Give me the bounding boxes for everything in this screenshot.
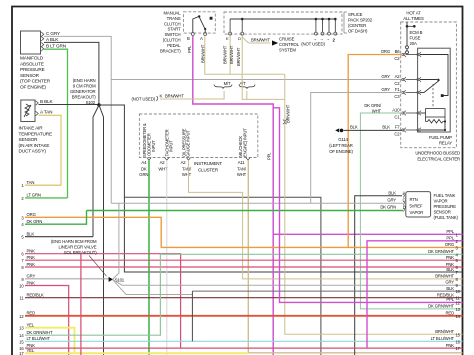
wire BRN/WHT branch to cruise control xyxy=(242,37,270,43)
wire PPL vertical joining rows 2 12 17 xyxy=(367,241,463,348)
relay actuator dashed link xyxy=(432,84,434,107)
svg-text:A2: A2 xyxy=(160,160,166,165)
svg-text:CRUISE: CRUISE xyxy=(279,37,295,42)
label BRN/WHT vertical pin E xyxy=(222,45,227,64)
svg-text:ALL TIMES: ALL TIMES xyxy=(403,16,424,21)
svg-text:START: START xyxy=(168,27,181,32)
svg-text:PPL: PPL xyxy=(446,229,454,234)
svg-text:C GRY: C GRY xyxy=(46,31,61,36)
svg-text:PEDAL: PEDAL xyxy=(167,43,181,48)
IAT sensor caption xyxy=(19,126,52,154)
cluster pin A4 xyxy=(141,158,151,166)
svg-text:BLK: BLK xyxy=(446,267,454,272)
svg-text:PNK: PNK xyxy=(27,262,36,267)
relay coil with resistor xyxy=(420,109,446,131)
svg-text:TAN: TAN xyxy=(27,180,35,185)
svg-text:BRN/WHT: BRN/WHT xyxy=(229,45,234,64)
pin B label LT GRN xyxy=(46,44,66,49)
left wire 15 LT BLU/WHT xyxy=(19,336,462,344)
svg-text:HOT AT: HOT AT xyxy=(406,11,421,16)
svg-text:C1: C1 xyxy=(394,115,400,120)
splice pack internal bus xyxy=(229,18,337,35)
label BRN/WHT vertical xyxy=(201,44,206,63)
speedometer odometer input label xyxy=(142,123,156,157)
svg-text:C2: C2 xyxy=(394,132,400,137)
svg-text:DK GRN/WHT: DK GRN/WHT xyxy=(428,249,454,254)
svg-text:DK GRN/WHT: DK GRN/WHT xyxy=(27,330,53,335)
sensor pin labels xyxy=(380,191,406,210)
svg-text:GAUGE INPUT: GAUGE INPUT xyxy=(186,130,191,157)
label WHT xyxy=(158,167,168,172)
ECM B fuse 20A xyxy=(406,22,423,55)
svg-text:A: A xyxy=(200,36,203,41)
svg-text:DUCT ASS'Y): DUCT ASS'Y) xyxy=(19,149,47,154)
label TAN/WHT mil xyxy=(237,167,247,177)
svg-text:A2: A2 xyxy=(181,160,187,165)
left wire 1 TAN xyxy=(21,180,61,188)
svg-text:SENSOR: SENSOR xyxy=(20,73,40,78)
svg-text:GRY: GRY xyxy=(445,280,454,285)
svg-text:ORG: ORG xyxy=(445,242,454,247)
svg-text:PNK: PNK xyxy=(446,255,455,260)
wire GRY from S101 up branch to sensor return line xyxy=(113,203,119,279)
svg-text:DK GRN/: DK GRN/ xyxy=(364,103,382,108)
svg-text:MANUAL: MANUAL xyxy=(163,11,181,16)
svg-text:DK GRN/WHT: DK GRN/WHT xyxy=(428,304,454,309)
svg-text:LT GRN: LT GRN xyxy=(27,193,41,198)
svg-text:TAN/: TAN/ xyxy=(182,167,192,172)
svg-text:PNK: PNK xyxy=(446,343,455,348)
wire BRN/WHT A/T brace stem xyxy=(246,91,248,99)
wire BLK S102 right branch to right row 7 xyxy=(99,105,463,272)
svg-text:PRESSURE: PRESSURE xyxy=(20,67,45,72)
svg-text:B LT GRN: B LT GRN xyxy=(46,44,66,49)
svg-text:D: D xyxy=(238,36,241,41)
svg-text:20A: 20A xyxy=(410,41,417,46)
splice pack SP202 dashed box xyxy=(224,12,342,34)
svg-text:WHT: WHT xyxy=(182,172,192,177)
wire BRN/WHT from splice pin D through A/T stem to right row 15 xyxy=(242,36,285,100)
left wire 11 RED/BLK xyxy=(19,293,462,301)
svg-text:9 CM FROM: 9 CM FROM xyxy=(73,84,96,89)
wire ORG from ECM pin B6 xyxy=(348,55,402,248)
relay switch common from row1 xyxy=(420,55,448,98)
manual trans clutch start switch caption xyxy=(160,11,181,54)
cluster pin A2 oil xyxy=(181,158,191,166)
svg-text:FUSE: FUSE xyxy=(410,36,421,41)
fuel tank vapor pressure sensor box xyxy=(403,192,430,217)
wire BLK S102 center fan branch down to bottom xyxy=(99,105,104,355)
ground G114 xyxy=(329,125,358,155)
svg-text:UNDERHOOD BUSSED: UNDERHOOD BUSSED xyxy=(415,151,460,156)
svg-text:TRANS: TRANS xyxy=(167,16,181,21)
svg-text:(LEFT REAR: (LEFT REAR xyxy=(329,143,353,148)
svg-text:BLK: BLK xyxy=(350,125,358,130)
label TAN/WHT oil xyxy=(182,167,192,177)
svg-text:SENSOR: SENSOR xyxy=(434,210,451,215)
label DK GRN xyxy=(139,167,148,177)
svg-text:(TOP CENTER: (TOP CENTER xyxy=(20,79,51,84)
clutch switch pin letters xyxy=(187,36,203,41)
svg-text:PNK: PNK xyxy=(27,255,36,260)
left wire 7 PNK xyxy=(21,255,462,263)
svg-text:GRY: GRY xyxy=(387,198,396,203)
svg-text:BREAKOUT): BREAKOUT) xyxy=(72,95,96,100)
wire BLK from IAT pin B to splice S102 xyxy=(39,104,100,106)
svg-text:A/T: A/T xyxy=(240,81,247,86)
svg-text:ORG: ORG xyxy=(381,49,390,54)
svg-text:PPL: PPL xyxy=(267,152,272,160)
svg-text:VAPOR: VAPOR xyxy=(434,199,448,204)
svg-text:(ENG HARN 9CM FROM: (ENG HARN 9CM FROM xyxy=(51,239,97,244)
svg-text:LT BLU/WHT: LT BLU/WHT xyxy=(431,336,455,341)
svg-text:WHT: WHT xyxy=(237,172,247,177)
svg-text:C3: C3 xyxy=(394,94,400,99)
node S102 junction xyxy=(97,103,100,106)
left wire 12 RED xyxy=(19,311,462,319)
svg-text:(IN AIR INTAKE: (IN AIR INTAKE xyxy=(19,143,50,148)
pin label DK GRN/WHT A10 xyxy=(364,103,382,114)
svg-text:OF ENGINE): OF ENGINE) xyxy=(20,85,46,90)
underhood bussed electrical center caption xyxy=(415,151,460,162)
svg-text:5VREF: 5VREF xyxy=(410,204,423,209)
left wire 5 BLK xyxy=(21,232,93,240)
svg-text:BLK: BLK xyxy=(388,191,396,196)
MAP sensor caption xyxy=(20,56,51,90)
wire GRY from MAP pin C to ECM pin A2 (right then down then right) xyxy=(44,36,403,203)
svg-text:(ENG HARN: (ENG HARN xyxy=(73,78,96,83)
svg-text:PNK: PNK xyxy=(27,249,36,254)
pin C label GRY xyxy=(46,31,61,36)
svg-text:F1: F1 xyxy=(395,87,400,92)
svg-text:A4: A4 xyxy=(141,160,147,165)
wire TAN from IAT pin A down to left wire 1 xyxy=(39,115,62,185)
svg-text:PPL: PPL xyxy=(187,45,192,53)
wire PPL branch to right row 1 xyxy=(273,233,462,235)
svg-text:K: K xyxy=(160,93,163,98)
relay fixed contact row2 xyxy=(420,79,439,81)
svg-text:ENGINE) INPUT: ENGINE) INPUT xyxy=(242,128,247,157)
svg-text:LT BLU/WHT: LT BLU/WHT xyxy=(27,336,51,341)
intake air temperature sensor box with thermistor xyxy=(21,100,38,122)
pin label GRY F1 xyxy=(381,87,390,92)
left wire 4 DK GRN xyxy=(21,211,86,228)
svg-text:TAN/: TAN/ xyxy=(237,167,247,172)
svg-text:G114: G114 xyxy=(338,137,348,142)
svg-text:INTAKE AIR: INTAKE AIR xyxy=(19,126,44,131)
svg-text:FUEL TANK: FUEL TANK xyxy=(434,193,456,198)
svg-text:PPL: PPL xyxy=(446,236,454,241)
svg-text:C2: C2 xyxy=(394,81,400,86)
svg-text:RED: RED xyxy=(445,311,454,316)
label PPL vertical mid xyxy=(267,152,272,160)
svg-text:BLK: BLK xyxy=(446,286,454,291)
svg-text:BRACKET): BRACKET) xyxy=(160,48,181,53)
svg-text:CLUSTER: CLUSTER xyxy=(198,168,219,173)
svg-text:A: A xyxy=(403,191,406,196)
wire BLK tap from S102 branch across middle then down xyxy=(124,197,321,355)
wire PPL branch to right row 12 xyxy=(273,108,462,303)
pin A label BLK xyxy=(46,37,59,42)
M/T A/T variant braces xyxy=(214,81,255,89)
svg-text:SYSTEM: SYSTEM xyxy=(279,48,296,53)
svg-text:GENERATOR: GENERATOR xyxy=(70,89,96,94)
svg-text:DK: DK xyxy=(141,167,147,172)
svg-text:C2: C2 xyxy=(394,56,400,61)
right side wire row labels xyxy=(428,229,461,351)
wire TAN/WHT from cluster oil pin to right row 8 xyxy=(189,160,463,279)
splice S102 label xyxy=(70,78,96,105)
fuel pump relay box xyxy=(418,48,451,132)
svg-text:SENSOR: SENSOR xyxy=(19,137,39,142)
left wire 13 YEL xyxy=(19,323,74,354)
svg-text:(CLUTCH: (CLUTCH xyxy=(163,38,181,43)
svg-text:B: B xyxy=(403,205,406,210)
tachometer input label xyxy=(164,129,173,156)
svg-text:OF DASH): OF DASH) xyxy=(348,29,368,34)
svg-text:M/T: M/T xyxy=(224,81,231,86)
svg-text:BLK: BLK xyxy=(382,125,390,130)
ECM connector pins with chevrons xyxy=(392,49,421,137)
left wire 8 PNK xyxy=(21,262,462,270)
svg-text:DK GRN: DK GRN xyxy=(380,205,396,210)
HOT AT ALL TIMES caption xyxy=(403,11,424,22)
cruise control arrow and caption xyxy=(251,37,300,53)
svg-text:CONTROL: CONTROL xyxy=(279,42,300,47)
pin label GRY A2 xyxy=(381,74,390,79)
wire BRN/WHT vertical to right row 15 xyxy=(285,74,463,334)
wire BRN/WHT from clutch switch pin A to splice pack pin E xyxy=(205,36,285,74)
svg-text:GRN: GRN xyxy=(139,172,148,177)
svg-text:DK GRN: DK GRN xyxy=(27,219,43,224)
wire GRY from S101 to right row 9 xyxy=(113,279,463,285)
wire BLK from vapor sensor pin A down to right row 7 xyxy=(355,196,402,355)
svg-text:GRY: GRY xyxy=(27,274,36,279)
pin label BLK F7 xyxy=(382,125,390,130)
svg-text:GRY: GRY xyxy=(381,74,390,79)
label BRN/WHT vertical pin D xyxy=(236,47,241,66)
wire GRY from vapor sensor pin C across to MAP C GRY vertical xyxy=(111,202,403,204)
svg-text:BRN/WHT: BRN/WHT xyxy=(251,38,270,43)
relay switch arm row3 xyxy=(420,80,440,92)
fuel pump relay caption xyxy=(429,135,452,146)
instrument cluster dashed box xyxy=(139,114,257,158)
svg-text:RELAY: RELAY xyxy=(439,141,452,146)
wire PPL from clutch switch pin B xyxy=(193,36,273,355)
svg-text:TEMPERATURE: TEMPERATURE xyxy=(19,131,52,136)
svg-text:(CENTER: (CENTER xyxy=(348,23,366,28)
label PPL vertical xyxy=(187,45,192,53)
svg-text:SPLICE: SPLICE xyxy=(348,12,363,17)
label BRN/WHT vertical mid2 xyxy=(229,45,234,64)
svg-text:PNK: PNK xyxy=(27,280,36,285)
svg-text:B6: B6 xyxy=(395,49,401,54)
left wire 10 PNK xyxy=(19,280,69,355)
left wire 17 YEL xyxy=(19,348,248,355)
fuel tank vapor sensor caption xyxy=(434,193,459,220)
svg-text:B: B xyxy=(187,36,190,41)
svg-text:BLK: BLK xyxy=(27,232,35,237)
svg-text:BRN/WHT: BRN/WHT xyxy=(236,47,241,66)
svg-text:LINEAR EGR VALVE: LINEAR EGR VALVE xyxy=(58,245,96,250)
svg-text:MANIFOLD: MANIFOLD xyxy=(20,56,44,61)
svg-text:BRN/WHT: BRN/WHT xyxy=(222,45,227,64)
svg-text:ORG: ORG xyxy=(27,212,36,217)
svg-text:CLUTCH: CLUTCH xyxy=(164,21,181,26)
wire PNK vertical branch from wire 6 xyxy=(80,254,82,355)
svg-text:BRN/WHT: BRN/WHT xyxy=(435,329,454,334)
svg-text:B BLK: B BLK xyxy=(40,99,54,104)
svg-text:INSTRUMENT: INSTRUMENT xyxy=(194,161,222,166)
pin A label TAN xyxy=(40,110,52,115)
cluster pin A11 xyxy=(238,158,250,166)
svg-text:VAPOR: VAPOR xyxy=(410,210,424,215)
left wire 2 LT GRN xyxy=(21,193,67,201)
svg-text:GRY: GRY xyxy=(381,87,390,92)
pin label ORG B6 xyxy=(381,49,390,54)
svg-text:A2: A2 xyxy=(395,74,401,79)
svg-text:F7: F7 xyxy=(395,125,400,130)
svg-text:BRN/WHT: BRN/WHT xyxy=(165,93,184,98)
svg-text:ECM B: ECM B xyxy=(410,30,423,35)
left wire 16 PNK xyxy=(19,343,462,351)
relay row5 wire xyxy=(420,129,445,131)
(NOT USED) pin K xyxy=(132,93,185,101)
svg-text:OF ENGINE): OF ENGINE) xyxy=(329,149,353,154)
wire WHT from cluster pin A2 down xyxy=(166,160,168,355)
wire BLK S102 left fan branch to left wire 5 xyxy=(93,105,99,237)
inline connector on BRN/WHT wire xyxy=(283,120,287,125)
svg-text:A11: A11 xyxy=(238,160,246,165)
svg-text:PPL: PPL xyxy=(446,297,454,302)
svg-text:FUEL PUMP: FUEL PUMP xyxy=(429,135,452,140)
MIL check engine input label xyxy=(238,128,247,157)
splice pack (NOT USED) caption xyxy=(301,42,325,47)
left wire 14 DK GRN/WHT xyxy=(19,254,462,338)
left wire 3 ORG xyxy=(21,212,462,247)
svg-text:SWITCH: SWITCH xyxy=(164,32,180,37)
svg-text:ELECTRICAL CENTER: ELECTRICAL CENTER xyxy=(417,157,460,162)
node S101 splice and label xyxy=(51,239,125,283)
instrument cluster caption xyxy=(194,161,222,173)
wire GRY from S101 second branch xyxy=(113,279,193,294)
wire TAN/WHT from cluster pin A11 down to bottom band xyxy=(248,160,462,352)
wire LT GRN from MAP pin B down to left wire 2 xyxy=(44,49,68,198)
wire BLK vertical from row 10 to LT BLU/WHT xyxy=(191,291,193,341)
wire BLK right row 10 from junction xyxy=(192,290,462,292)
svg-text:A TAN: A TAN xyxy=(40,110,52,115)
wire GRY from ECM pin F1 down to sensor return xyxy=(311,93,403,204)
svg-text:PACK SP202: PACK SP202 xyxy=(348,18,373,23)
wire BLK from MAP pin A down to splice S102 xyxy=(44,42,99,105)
wire DK GRN from cluster pin A4 down xyxy=(148,160,150,355)
left wire 6 PNK xyxy=(21,249,180,349)
svg-text:SOL BREAKOUT): SOL BREAKOUT) xyxy=(64,250,97,255)
wire BRN/WHT from pin K to M/T brace stem xyxy=(160,91,224,99)
clutch switch contacts xyxy=(191,15,212,35)
underhood electrical center dashed box xyxy=(401,22,457,148)
svg-text:BRN/WHT: BRN/WHT xyxy=(435,274,454,279)
clutch start switch S1 dashed box xyxy=(184,12,216,33)
svg-text:RTN: RTN xyxy=(410,197,418,202)
splice pack pin letters xyxy=(226,36,336,43)
cluster pin A2 tach xyxy=(160,158,169,166)
svg-text:(NOT USED): (NOT USED) xyxy=(301,42,325,47)
pin B label BLK xyxy=(40,99,54,104)
wire BLK from ECM pin F7 to ground G114 xyxy=(344,129,403,131)
wire DK GRN/WHT from ECM pin A10 to right row 13 xyxy=(360,113,462,309)
svg-text:A BLK: A BLK xyxy=(46,37,59,42)
svg-text:C: C xyxy=(403,198,406,203)
svg-text:RED/BLK: RED/BLK xyxy=(27,293,44,298)
left wire 9 GRY xyxy=(21,274,111,282)
svg-text:A10: A10 xyxy=(392,108,400,113)
oil pressure gauge input label xyxy=(181,128,190,157)
svg-text:(NOT USED): (NOT USED) xyxy=(132,97,156,102)
svg-text:(FUEL TANK): (FUEL TANK) xyxy=(434,215,459,220)
svg-text:INPUT: INPUT xyxy=(169,140,174,152)
splice pack SP202 caption xyxy=(344,12,373,34)
manifold absolute pressure sensor box xyxy=(21,31,44,54)
svg-text:INPUT: INPUT xyxy=(151,140,156,152)
wire DK GRN from vapor sensor pin B to left wire 4 xyxy=(87,210,404,212)
label BRN/WHT vertical mid xyxy=(285,104,290,123)
svg-text:S102: S102 xyxy=(86,100,96,105)
svg-text:PRESSURE: PRESSURE xyxy=(434,204,457,209)
svg-text:ABSOLUTE: ABSOLUTE xyxy=(20,61,44,66)
